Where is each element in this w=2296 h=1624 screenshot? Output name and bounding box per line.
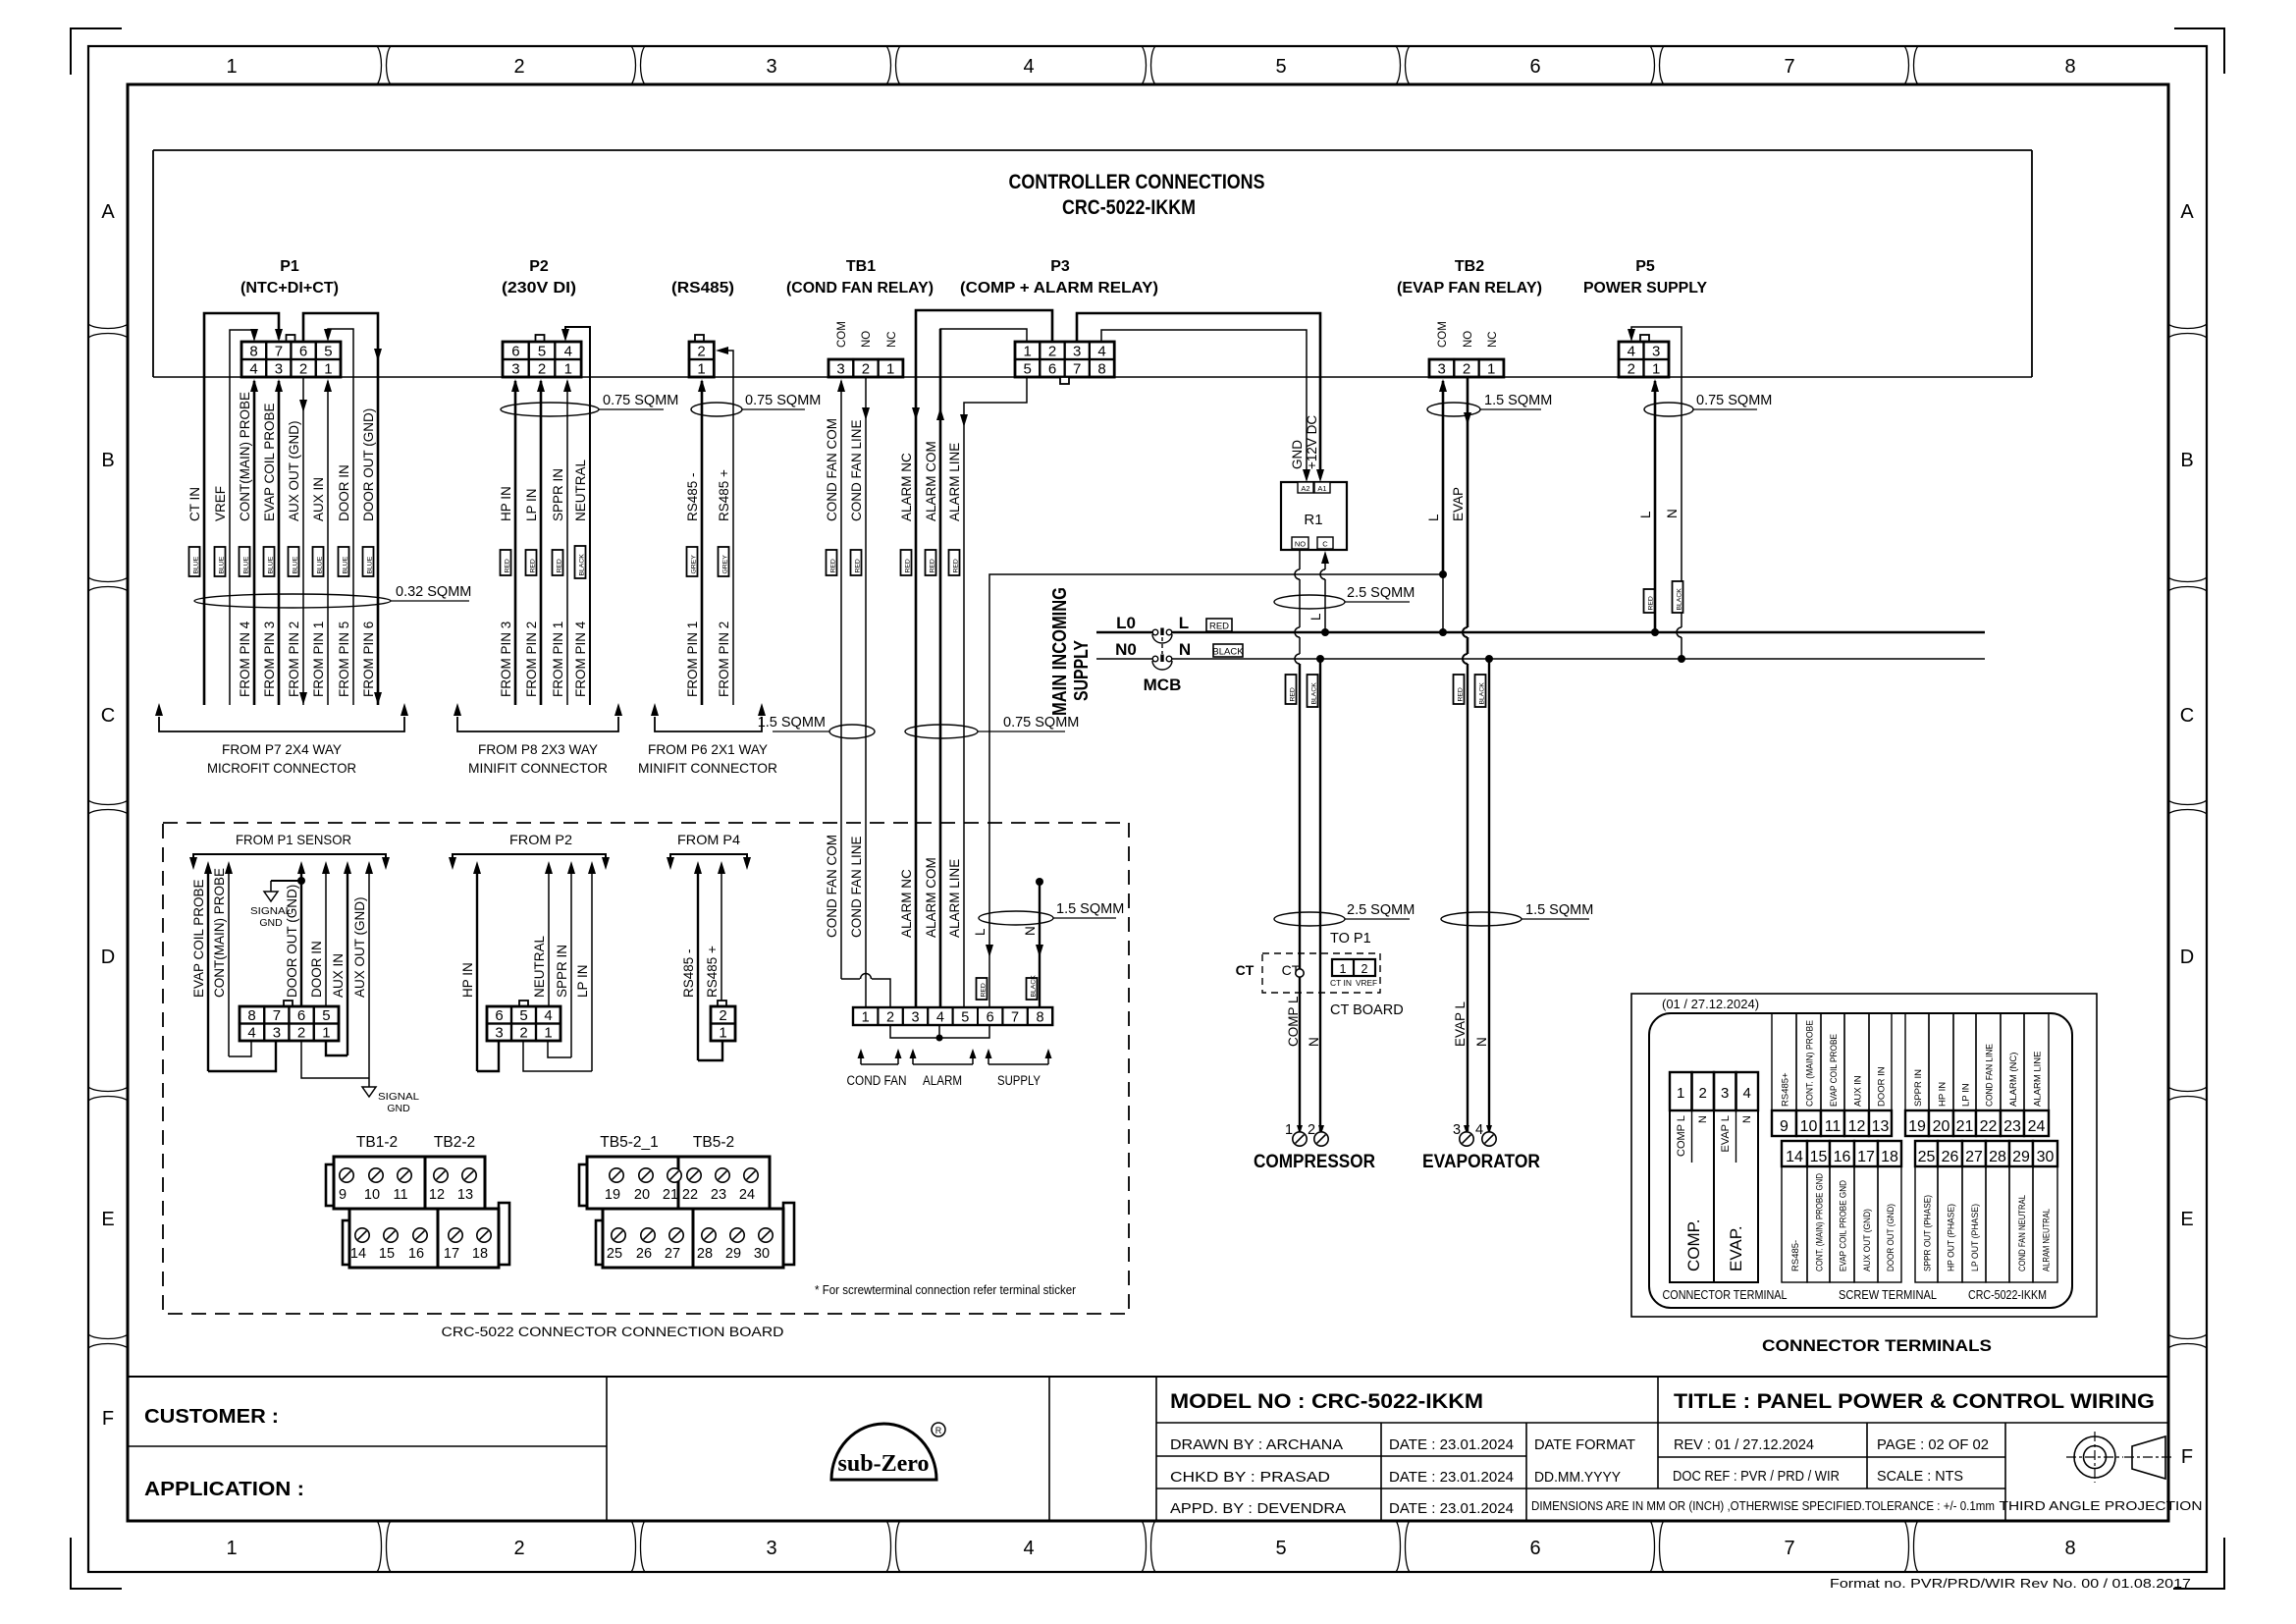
svg-text:DD.MM.YYYY: DD.MM.YYYY bbox=[1534, 1469, 1621, 1486]
svg-text:1: 1 bbox=[1340, 962, 1347, 976]
wire P5 N hop over L line to N line bbox=[1677, 626, 1685, 663]
screw terminal table number row 14-30 bbox=[1782, 1141, 2057, 1166]
wire RS485- into pin 1 bbox=[698, 379, 706, 705]
svg-text:24: 24 bbox=[739, 1187, 755, 1203]
svg-text:BLACK: BLACK bbox=[1310, 682, 1317, 705]
cable group 0.32 SQMM for P1 bbox=[194, 584, 471, 608]
svg-text:F: F bbox=[102, 1408, 114, 1430]
svg-text:R1: R1 bbox=[1304, 512, 1322, 528]
svg-text:3: 3 bbox=[1721, 1085, 1729, 1102]
svg-text:0.75 SQMM: 0.75 SQMM bbox=[745, 393, 821, 408]
svg-text:EVAP L: EVAP L bbox=[1453, 1001, 1468, 1047]
svg-text:LP IN: LP IN bbox=[575, 964, 590, 998]
svg-text:L: L bbox=[1638, 511, 1653, 518]
svg-text:RED: RED bbox=[829, 559, 836, 572]
svg-text:24: 24 bbox=[2028, 1118, 2046, 1135]
svg-text:TO P1: TO P1 bbox=[1330, 931, 1371, 947]
svg-text:THIRD ANGLE PROJECTION: THIRD ANGLE PROJECTION bbox=[2000, 1499, 2203, 1513]
cable group 1.5 SQMM at strip supply bbox=[979, 901, 1124, 925]
TB2 contact labels COM NO NC bbox=[1437, 321, 1499, 348]
svg-text:(RS485): (RS485) bbox=[671, 280, 734, 297]
svg-text:SPPR IN: SPPR IN bbox=[1913, 1069, 1924, 1107]
wire ALARM NC bracket from P3 pin 2 bbox=[912, 310, 1052, 1007]
svg-text:3: 3 bbox=[1438, 361, 1446, 378]
svg-text:FROM PIN 3: FROM PIN 3 bbox=[499, 622, 513, 697]
svg-text:CRC-5022 CONNECTOR CONNECTION: CRC-5022 CONNECTOR CONNECTION BOARD bbox=[442, 1325, 784, 1339]
svg-text:BLUE: BLUE bbox=[292, 556, 298, 573]
compressor terminals bbox=[1254, 1122, 1375, 1172]
svg-text:17: 17 bbox=[444, 1246, 459, 1262]
wire supply L feed from node to terminal 6 bbox=[986, 574, 1443, 1007]
svg-text:APPD. BY : DEVENDRA: APPD. BY : DEVENDRA bbox=[1170, 1500, 1346, 1517]
svg-text:1: 1 bbox=[324, 361, 332, 378]
svg-text:3: 3 bbox=[275, 361, 283, 378]
svg-text:RS485 +: RS485 + bbox=[705, 946, 720, 998]
svg-text:SUPPLY: SUPPLY bbox=[1071, 639, 1093, 701]
svg-text:1: 1 bbox=[697, 361, 705, 378]
wire EVAP fan line from TB2 pin 2 bbox=[1464, 377, 1471, 626]
bracket FROM P4 bbox=[667, 854, 751, 870]
svg-text:7: 7 bbox=[1784, 1538, 1794, 1559]
svg-text:6: 6 bbox=[1529, 1538, 1540, 1559]
terminal strip 1-8 bbox=[853, 1007, 1052, 1026]
svg-text:HP IN: HP IN bbox=[460, 962, 475, 998]
svg-text:14: 14 bbox=[1786, 1149, 1803, 1165]
svg-text:L0: L0 bbox=[1116, 614, 1136, 632]
svg-text:RS485 +: RS485 + bbox=[717, 469, 731, 521]
svg-text:23: 23 bbox=[2003, 1118, 2021, 1135]
svg-text:29: 29 bbox=[725, 1246, 741, 1262]
svg-text:16: 16 bbox=[1834, 1149, 1851, 1165]
TB1/P3 wire name labels bbox=[825, 418, 962, 521]
bracket COND FAN group bbox=[847, 1049, 907, 1088]
cable group 1.5 SQMM for TB2 pair bbox=[1427, 393, 1552, 416]
svg-text:Format no. PVR/PRD/WIR Rev No: Format no. PVR/PRD/WIR Rev No. 00 / 01.0… bbox=[1830, 1576, 2191, 1591]
svg-text:1: 1 bbox=[544, 1025, 552, 1042]
svg-text:1: 1 bbox=[1652, 361, 1660, 378]
svg-text:4: 4 bbox=[1023, 1538, 1034, 1559]
drawing sheet corner mark top-right bbox=[2174, 28, 2224, 74]
P5 wire colour tags bbox=[1644, 581, 1683, 613]
connector P5 title bbox=[1583, 258, 1707, 297]
svg-text:(COMP + ALARM RELAY): (COMP + ALARM RELAY) bbox=[960, 280, 1158, 297]
svg-text:RED: RED bbox=[556, 559, 562, 572]
svg-text:B: B bbox=[2180, 450, 2193, 471]
grid reference band row letters (left) bbox=[88, 201, 128, 1430]
svg-text:C: C bbox=[101, 705, 115, 727]
svg-text:TB5-2_1: TB5-2_1 bbox=[600, 1134, 658, 1151]
drawing sheet corner mark bottom-left bbox=[71, 1538, 122, 1589]
svg-text:COMPRESSOR: COMPRESSOR bbox=[1254, 1152, 1375, 1172]
svg-text:16: 16 bbox=[408, 1246, 424, 1262]
svg-text:8: 8 bbox=[249, 344, 257, 360]
svg-text:18: 18 bbox=[472, 1246, 488, 1262]
svg-text:2: 2 bbox=[519, 1025, 527, 1042]
svg-text:BLACK: BLACK bbox=[1212, 647, 1244, 658]
bracket SUPPLY group bbox=[986, 1049, 1052, 1088]
svg-text:FROM P8 2X3 WAY: FROM P8 2X3 WAY bbox=[478, 741, 599, 757]
svg-text:CONT(MAIN) PROBE: CONT(MAIN) PROBE bbox=[238, 392, 252, 521]
wire DOOR IN bracket to P1 pin 5 bbox=[324, 329, 353, 705]
P1 wire name labels bbox=[187, 392, 376, 521]
svg-text:C: C bbox=[2180, 705, 2194, 727]
svg-text:4: 4 bbox=[247, 1025, 255, 1042]
CT board dashed outline bbox=[1262, 953, 1380, 993]
svg-text:25: 25 bbox=[607, 1246, 622, 1262]
title block CHKD BY row bbox=[1170, 1469, 1621, 1486]
svg-text:5: 5 bbox=[1275, 1538, 1286, 1559]
svg-text:5: 5 bbox=[1275, 56, 1286, 78]
svg-text:2: 2 bbox=[1463, 361, 1470, 378]
svg-text:N: N bbox=[1023, 926, 1038, 936]
svg-text:LP OUT (PHASE): LP OUT (PHASE) bbox=[1970, 1204, 1981, 1272]
svg-text:4: 4 bbox=[544, 1007, 552, 1024]
svg-text:SCALE : NTS: SCALE : NTS bbox=[1877, 1468, 1963, 1485]
svg-text:TITLE : PANEL POWER & CONTROL: TITLE : PANEL POWER & CONTROL WIRING bbox=[1674, 1390, 2155, 1413]
svg-text:P3: P3 bbox=[1050, 258, 1070, 275]
svg-text:9: 9 bbox=[1780, 1118, 1789, 1135]
bracket FROM P7 2X4 WAY MICROFIT CONNECTOR bbox=[155, 703, 408, 776]
svg-text:PAGE : 02 OF 02: PAGE : 02 OF 02 bbox=[1877, 1436, 1989, 1453]
svg-text:EVAP L: EVAP L bbox=[1720, 1115, 1732, 1153]
cable group 1.5 SQMM for COND FAN pair bbox=[758, 715, 875, 738]
COMP and EVAP wire labels bbox=[1286, 996, 1489, 1047]
svg-text:2: 2 bbox=[1048, 344, 1056, 360]
svg-text:3: 3 bbox=[1073, 344, 1081, 360]
wire CONT(MAIN) PROBE to lower P1 pin 4 bbox=[225, 861, 251, 1056]
svg-text:3: 3 bbox=[766, 56, 776, 78]
svg-text:22: 22 bbox=[1980, 1118, 1998, 1135]
svg-text:3: 3 bbox=[911, 1010, 919, 1026]
svg-text:NC: NC bbox=[886, 331, 898, 348]
svg-text:1: 1 bbox=[1487, 361, 1495, 378]
screw terminal table upper labels bbox=[1781, 1020, 2044, 1107]
svg-text:0.75 SQMM: 0.75 SQMM bbox=[603, 393, 678, 408]
svg-text:FROM PIN 1: FROM PIN 1 bbox=[311, 622, 326, 697]
svg-text:BLUE: BLUE bbox=[316, 556, 323, 573]
connector lower P4 pin box bbox=[711, 1001, 735, 1042]
svg-text:20: 20 bbox=[1933, 1118, 1950, 1135]
screw terminal table number row 9-24 bbox=[1772, 1110, 2049, 1136]
svg-text:DATE : 23.01.2024: DATE : 23.01.2024 bbox=[1389, 1500, 1514, 1517]
svg-text:7: 7 bbox=[275, 344, 283, 360]
MCB breaker symbol bbox=[1144, 628, 1182, 695]
svg-text:CONT(MAIN) PROBE: CONT(MAIN) PROBE bbox=[212, 868, 227, 998]
svg-text:BLUE: BLUE bbox=[242, 556, 249, 573]
svg-text:12: 12 bbox=[429, 1187, 445, 1203]
svg-text:2: 2 bbox=[513, 56, 524, 78]
title block outline bbox=[128, 1377, 2168, 1521]
svg-text:(NTC+DI+CT): (NTC+DI+CT) bbox=[240, 280, 339, 297]
node junction relay C on L line bbox=[1321, 628, 1329, 636]
svg-text:4: 4 bbox=[249, 361, 257, 378]
svg-text:26: 26 bbox=[636, 1246, 652, 1262]
svg-text:6: 6 bbox=[511, 344, 519, 360]
svg-text:TB2-2: TB2-2 bbox=[434, 1134, 475, 1151]
CT board terminal 1 2 bbox=[1330, 959, 1377, 988]
svg-text:1: 1 bbox=[322, 1025, 330, 1042]
svg-text:3: 3 bbox=[836, 361, 844, 378]
svg-text:COMP L: COMP L bbox=[1676, 1115, 1687, 1157]
svg-text:DATE : 23.01.2024: DATE : 23.01.2024 bbox=[1389, 1436, 1514, 1453]
connector P1 pin box bbox=[241, 335, 341, 378]
svg-text:DOOR IN: DOOR IN bbox=[309, 941, 324, 998]
svg-text:7: 7 bbox=[1011, 1010, 1019, 1026]
cable group 2.5 SQMM at relay output bbox=[1274, 585, 1415, 621]
svg-text:2: 2 bbox=[297, 1025, 305, 1042]
svg-text:P1: P1 bbox=[280, 258, 299, 275]
svg-text:BLACK: BLACK bbox=[1030, 975, 1037, 998]
svg-text:2: 2 bbox=[697, 344, 705, 360]
svg-text:EVAP COIL PROBE: EVAP COIL PROBE bbox=[262, 403, 277, 521]
svg-text:SCREW TERMINAL: SCREW TERMINAL bbox=[1839, 1288, 1937, 1302]
svg-text:SIGNAL: SIGNAL bbox=[378, 1091, 419, 1103]
svg-text:VREF: VREF bbox=[213, 486, 228, 521]
svg-text:DOOR IN: DOOR IN bbox=[1877, 1066, 1888, 1107]
svg-text:COND FAN LINE: COND FAN LINE bbox=[1985, 1044, 1996, 1107]
svg-text:22: 22 bbox=[682, 1187, 698, 1203]
bracket FROM P1 SENSOR bbox=[189, 854, 390, 870]
svg-text:5: 5 bbox=[324, 344, 332, 360]
svg-text:P2: P2 bbox=[529, 258, 549, 275]
svg-text:EVAP COIL PROBE: EVAP COIL PROBE bbox=[1829, 1034, 1840, 1107]
svg-text:ALARM LINE: ALARM LINE bbox=[947, 859, 962, 938]
svg-text:B: B bbox=[101, 450, 114, 471]
svg-text:L: L bbox=[1426, 514, 1441, 521]
svg-text:DOC REF : PVR / PRD / WIR: DOC REF : PVR / PRD / WIR bbox=[1673, 1468, 1840, 1485]
svg-text:LP IN: LP IN bbox=[1961, 1083, 1972, 1107]
cable group 0.75 SQMM for RS485 bbox=[691, 393, 821, 416]
svg-text:FROM P6 2X1 WAY: FROM P6 2X1 WAY bbox=[648, 741, 769, 757]
title block DRAWN BY row bbox=[1170, 1436, 1635, 1453]
screw terminal table lower labels bbox=[1790, 1173, 2053, 1272]
CT sensor label and loop bbox=[1236, 962, 1305, 978]
svg-text:1: 1 bbox=[226, 1538, 237, 1559]
svg-text:DIMENSIONS ARE IN MM OR (INCH): DIMENSIONS ARE IN MM OR (INCH) ,OTHERWIS… bbox=[1531, 1499, 1995, 1513]
wire HP IN to lower P2 pin 3 bbox=[473, 861, 499, 1071]
svg-text:NEUTRAL: NEUTRAL bbox=[573, 459, 588, 521]
svg-text:BLUE: BLUE bbox=[366, 556, 373, 573]
svg-text:12: 12 bbox=[1848, 1118, 1866, 1135]
svg-text:0.32 SQMM: 0.32 SQMM bbox=[396, 584, 471, 600]
svg-text:FROM PIN 1: FROM PIN 1 bbox=[551, 622, 565, 697]
svg-text:CRC-5022-IKKM: CRC-5022-IKKM bbox=[1968, 1288, 2047, 1302]
RS485 wire name labels bbox=[685, 469, 731, 521]
wire junction link TB2 COM to L line bbox=[1442, 574, 1444, 632]
connector P3 pin box bbox=[1015, 342, 1114, 384]
svg-text:A2: A2 bbox=[1301, 484, 1309, 493]
svg-text:BLACK: BLACK bbox=[1676, 588, 1682, 611]
svg-text:ALARM NC: ALARM NC bbox=[899, 453, 914, 521]
svg-text:GND: GND bbox=[1290, 440, 1305, 469]
svg-text:GND: GND bbox=[387, 1103, 410, 1114]
svg-text:MINIFIT CONNECTOR: MINIFIT CONNECTOR bbox=[638, 760, 777, 776]
grid reference band row letters (right) bbox=[2168, 201, 2207, 1468]
svg-text:11: 11 bbox=[393, 1187, 407, 1203]
svg-text:N: N bbox=[1697, 1115, 1709, 1123]
svg-text:BLACK: BLACK bbox=[578, 554, 585, 576]
svg-text:FROM PIN 6: FROM PIN 6 bbox=[361, 622, 376, 697]
svg-text:NEUTRAL: NEUTRAL bbox=[532, 935, 547, 998]
svg-text:TB5-2: TB5-2 bbox=[693, 1134, 734, 1151]
wire supply N feed to terminal 8 bbox=[1036, 878, 1043, 1007]
connector P2 title bbox=[502, 258, 576, 297]
connector P2 pin box bbox=[503, 335, 581, 378]
svg-text:DRAWN BY : ARCHANA: DRAWN BY : ARCHANA bbox=[1170, 1436, 1343, 1453]
svg-text:3: 3 bbox=[1652, 344, 1660, 360]
svg-text:26: 26 bbox=[1942, 1149, 1959, 1165]
connector terminals inner rounded box bbox=[1649, 1013, 2072, 1308]
svg-text:ALARM LINE: ALARM LINE bbox=[2033, 1052, 2044, 1108]
svg-text:2: 2 bbox=[538, 361, 546, 378]
svg-text:EVAP COIL PROBE: EVAP COIL PROBE bbox=[191, 879, 206, 998]
svg-text:5: 5 bbox=[538, 344, 546, 360]
svg-text:RED: RED bbox=[1457, 687, 1464, 701]
svg-text:5: 5 bbox=[1024, 361, 1032, 378]
connector RS485 pin box bbox=[689, 335, 714, 378]
svg-text:(01 / 27.12.2024): (01 / 27.12.2024) bbox=[1662, 997, 1759, 1011]
wire SPPR IN into P2 pin 1 bbox=[563, 379, 571, 705]
svg-text:6: 6 bbox=[297, 1007, 305, 1024]
bracket ALARM group bbox=[910, 1049, 977, 1088]
wire DOOR OUT (GND) bracket from P1 pin 6 bbox=[303, 313, 382, 705]
svg-text:COM: COM bbox=[1437, 321, 1449, 348]
svg-text:2: 2 bbox=[513, 1538, 524, 1559]
svg-text:RS485-: RS485- bbox=[1790, 1240, 1801, 1272]
svg-text:EVAP COIL PROBE GND: EVAP COIL PROBE GND bbox=[1839, 1180, 1849, 1272]
svg-text:ALARM: ALARM bbox=[923, 1073, 962, 1088]
svg-text:(230V DI): (230V DI) bbox=[502, 280, 576, 297]
svg-text:FROM PIN 3: FROM PIN 3 bbox=[262, 622, 277, 697]
svg-text:1.5 SQMM: 1.5 SQMM bbox=[1525, 902, 1593, 918]
wire CONT(MAIN) PROBE into P1 pin 4 bbox=[250, 379, 258, 705]
main line N bbox=[1096, 658, 1985, 660]
svg-text:+12V DC: +12V DC bbox=[1305, 415, 1319, 469]
TB1/P3 wire colour tags RED bbox=[827, 550, 960, 575]
svg-text:RS485 -: RS485 - bbox=[685, 472, 700, 521]
svg-text:BLUE: BLUE bbox=[267, 556, 274, 573]
svg-text:HP OUT (PHASE): HP OUT (PHASE) bbox=[1947, 1204, 1957, 1272]
svg-text:18: 18 bbox=[1881, 1149, 1898, 1165]
svg-text:MAIN INCOMING: MAIN INCOMING bbox=[1049, 587, 1071, 716]
svg-text:13: 13 bbox=[1872, 1118, 1890, 1135]
grid reference band column numbers (top) bbox=[226, 46, 2075, 84]
svg-text:COMP.: COMP. bbox=[1684, 1218, 1703, 1272]
svg-text:CT IN: CT IN bbox=[187, 487, 202, 521]
svg-text:COM: COM bbox=[836, 321, 848, 348]
svg-text:N: N bbox=[1665, 509, 1680, 518]
COMP/EVAP connector terminal mini table bbox=[1670, 1072, 1758, 1282]
svg-text:VREF: VREF bbox=[1356, 979, 1377, 988]
svg-text:AUX IN: AUX IN bbox=[331, 953, 346, 998]
svg-text:NC: NC bbox=[1487, 331, 1499, 348]
svg-text:RED: RED bbox=[1209, 622, 1229, 632]
lower duplicate wire labels COND FAN / ALARM bbox=[825, 835, 962, 938]
svg-text:L: L bbox=[973, 928, 988, 936]
EVAP wire colour tags bbox=[1454, 675, 1486, 707]
svg-text:COMP L: COMP L bbox=[1286, 996, 1301, 1047]
svg-text:DOOR OUT (GND): DOOR OUT (GND) bbox=[1886, 1204, 1896, 1272]
node junction L feed upper bbox=[1439, 570, 1447, 578]
TB2 wire labels L EVAP bbox=[1426, 487, 1466, 521]
cable group 2.5 SQMM to compressor bbox=[1274, 902, 1415, 926]
wire EVAP N branch from main N line bbox=[1485, 655, 1493, 1131]
wire relay C input from L line bbox=[1320, 551, 1329, 632]
svg-text:SPPR OUT (PHASE): SPPR OUT (PHASE) bbox=[1923, 1195, 1934, 1272]
svg-text:21: 21 bbox=[663, 1187, 678, 1203]
svg-text:11: 11 bbox=[1825, 1118, 1842, 1135]
svg-text:2: 2 bbox=[1362, 962, 1368, 976]
svg-text:EVAP: EVAP bbox=[1451, 487, 1466, 521]
svg-text:A: A bbox=[2180, 201, 2194, 223]
svg-text:A: A bbox=[101, 201, 115, 223]
wire EVAP COIL PROBE into P1 pin 3 bbox=[275, 379, 283, 705]
svg-text:FROM PIN 2: FROM PIN 2 bbox=[287, 622, 301, 697]
svg-text:CT: CT bbox=[1236, 962, 1255, 978]
svg-text:1: 1 bbox=[719, 1025, 726, 1042]
connector lower P1 pin box bbox=[240, 1001, 339, 1042]
svg-text:10: 10 bbox=[364, 1187, 380, 1203]
svg-text:GREY: GREY bbox=[721, 555, 728, 574]
svg-text:ALARM NC: ALARM NC bbox=[899, 869, 914, 938]
svg-text:L: L bbox=[1179, 614, 1189, 632]
P2 wire colour tags bbox=[501, 546, 586, 578]
svg-text:RED: RED bbox=[929, 559, 935, 572]
COMP wire colour tags bbox=[1286, 675, 1318, 707]
svg-text:E: E bbox=[101, 1209, 114, 1230]
svg-text:FROM PIN 2: FROM PIN 2 bbox=[524, 622, 539, 697]
node junction on main L line bbox=[1439, 628, 1447, 636]
svg-text:RS485+: RS485+ bbox=[1781, 1072, 1791, 1107]
svg-text:4: 4 bbox=[564, 344, 572, 360]
node junction P5 L on main L line bbox=[1651, 628, 1659, 636]
svg-text:FROM PIN 2: FROM PIN 2 bbox=[717, 622, 731, 697]
P2 FROM PIN labels bbox=[499, 621, 588, 697]
svg-text:APPLICATION :: APPLICATION : bbox=[144, 1479, 304, 1500]
svg-text:0.75 SQMM: 0.75 SQMM bbox=[1003, 715, 1079, 731]
svg-text:NO: NO bbox=[1295, 540, 1306, 549]
svg-text:SPPR IN: SPPR IN bbox=[551, 468, 565, 521]
screw terminal table upper label cells bbox=[1772, 1013, 2049, 1110]
svg-text:CUSTOMER :: CUSTOMER : bbox=[144, 1406, 279, 1428]
wire DOOR OUT (GND) with SIGNAL GND tap into pin 6 bbox=[250, 861, 305, 1006]
wire L into P5 pin 1 bbox=[1651, 379, 1659, 632]
svg-text:EVAPORATOR: EVAPORATOR bbox=[1422, 1152, 1540, 1172]
wire COMP N branch from main N line bbox=[1316, 655, 1324, 1131]
strip supply colour tags bbox=[977, 975, 1038, 1000]
wire +12V DC bracket from P3 pin 3 to relay R1 A1 bbox=[1077, 313, 1324, 482]
svg-text:7: 7 bbox=[1784, 56, 1794, 78]
svg-text:AUX OUT (GND): AUX OUT (GND) bbox=[352, 896, 367, 998]
svg-text:N0: N0 bbox=[1115, 640, 1137, 659]
svg-text:6: 6 bbox=[299, 344, 307, 360]
svg-text:4: 4 bbox=[1097, 344, 1105, 360]
svg-text:3: 3 bbox=[273, 1025, 281, 1042]
svg-text:CONT. (MAIN) PROBE GND: CONT. (MAIN) PROBE GND bbox=[1815, 1173, 1826, 1272]
svg-text:7: 7 bbox=[1073, 361, 1081, 378]
svg-text:CONTROLLER CONNECTIONS: CONTROLLER CONNECTIONS bbox=[1009, 171, 1265, 193]
wire RS485- to lower P4 pin 1 bbox=[694, 861, 722, 1060]
svg-text:2: 2 bbox=[886, 1010, 894, 1026]
svg-text:RED: RED bbox=[980, 983, 987, 997]
svg-text:1: 1 bbox=[862, 1010, 870, 1026]
connector lower P2 pin box bbox=[487, 1001, 561, 1042]
evaporator terminals bbox=[1422, 1122, 1540, 1172]
svg-text:MODEL NO : CRC-5022-IKKM: MODEL NO : CRC-5022-IKKM bbox=[1170, 1390, 1483, 1413]
svg-text:D: D bbox=[2180, 947, 2194, 968]
svg-text:SPPR IN: SPPR IN bbox=[555, 945, 569, 998]
svg-text:AUX IN: AUX IN bbox=[1853, 1075, 1864, 1107]
